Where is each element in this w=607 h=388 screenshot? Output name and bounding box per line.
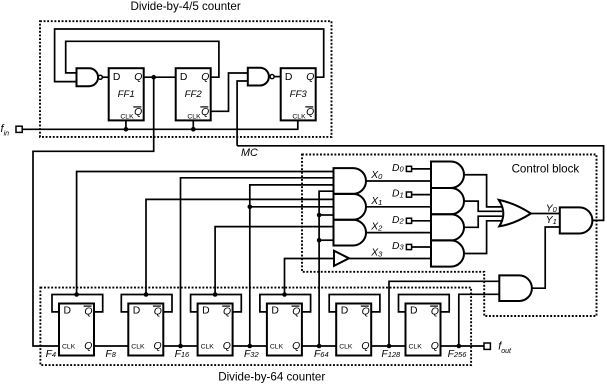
- svg-text:Q: Q: [201, 72, 209, 83]
- wire: FF7 Qbar-to-D feedback loop: [260, 295, 311, 312]
- svg-text:D2: D2: [392, 215, 404, 226]
- net Y0: OR output to U12: [531, 213, 560, 215]
- net X1: U4 output to U8: [366, 206, 431, 208]
- wire: NAND1 output to FF1 D: [102, 76, 108, 78]
- wire: U7 output to OR input: [464, 175, 503, 207]
- wire: F128 tap to U13 input: [389, 281, 499, 346]
- wire: f_in clock line to FF1/FF2/FF3 CLK: [22, 120, 298, 129]
- svg-text:CLK: CLK: [339, 343, 353, 350]
- svg-text:D: D: [133, 306, 141, 317]
- flip-flop FF7: [267, 304, 302, 356]
- dashed box: control block: [302, 155, 597, 317]
- junction: F16 tap: [178, 344, 183, 349]
- svg-text:Divide-by-4/5 counter: Divide-by-4/5 counter: [130, 0, 240, 13]
- wire: FF7 Qbar tap to buffer input: [285, 259, 335, 295]
- svg-text:Q: Q: [431, 341, 439, 352]
- svg-text:X1: X1: [370, 196, 382, 207]
- svg-text:Q: Q: [201, 107, 209, 118]
- terminal f_out: [484, 343, 490, 349]
- wire: FF4 Qbar-to-D feedback loop: [52, 295, 103, 312]
- wire: F16 tap to U3 input: [181, 178, 334, 346]
- junction: F64 branch upper: [317, 213, 322, 218]
- junction: FF7 loop tap: [282, 292, 287, 297]
- wire: FF6 Qbar tap to U5 input: [215, 227, 333, 295]
- wire: FF5 Qbar-to-D feedback loop: [121, 295, 172, 312]
- svg-text:Q: Q: [431, 307, 439, 318]
- svg-text:D: D: [410, 306, 418, 317]
- wire: D1 to and gate: [412, 194, 431, 196]
- junction: F64 branch lower: [317, 238, 322, 243]
- svg-text:Q: Q: [306, 107, 314, 118]
- wire: FF4 Qbar tap to U3 input: [77, 172, 334, 295]
- wire: F64 tap to U3 input: [319, 191, 333, 346]
- net F16: FF5 Q to FF6 CLK: [163, 345, 197, 347]
- svg-text:Q: Q: [306, 72, 314, 83]
- junction: FF1 CLK: [124, 127, 129, 132]
- svg-text:D1: D1: [392, 189, 404, 200]
- svg-text:MC: MC: [241, 147, 258, 159]
- svg-text:F8: F8: [105, 349, 116, 360]
- terminal D0: [406, 166, 411, 171]
- flip-flop FF4: [59, 304, 94, 356]
- svg-text:F256: F256: [448, 349, 468, 360]
- dashed box: divide-by-64 counter: [40, 288, 471, 366]
- svg-text:F32: F32: [244, 349, 259, 360]
- svg-text:CLK: CLK: [409, 343, 423, 350]
- nand gate U2: [248, 68, 274, 86]
- wire: outer feedback FF3 Q to NAND1 input: [55, 29, 324, 82]
- wire: FF1 CLK stub: [125, 120, 127, 129]
- and gate U10 (D3*X3): [431, 240, 464, 266]
- buffer U6 (X3): [334, 251, 349, 266]
- svg-text:D: D: [180, 72, 188, 83]
- wire: FF6 Qbar-to-D feedback loop: [191, 295, 242, 312]
- wire: FF8 Qbar-to-D feedback loop: [329, 295, 380, 312]
- net X3: buffer output to U10: [349, 258, 431, 260]
- and gate U5 (X2): [334, 220, 367, 246]
- and gate U8 (D1*X1): [431, 188, 464, 214]
- dashed box: divide-by-4/5 counter: [40, 21, 332, 137]
- and gate U12 (Y0*Y1 drives MC): [560, 207, 593, 233]
- junction: FF5 loop tap: [144, 292, 149, 297]
- nand gate U1: [77, 68, 103, 86]
- svg-text:X2: X2: [370, 222, 383, 233]
- svg-text:Y0: Y0: [546, 204, 558, 215]
- svg-text:CLK: CLK: [120, 114, 134, 121]
- wire: F32 branch to U4 input: [250, 206, 334, 208]
- svg-text:Q: Q: [223, 307, 231, 318]
- svg-text:Q: Q: [223, 341, 231, 352]
- junction: FF4 loop tap: [74, 292, 79, 297]
- net MC: vertical from NAND2 input down: [237, 81, 248, 146]
- svg-text:Control block: Control block: [512, 162, 580, 175]
- flip-flop FF8: [336, 304, 371, 356]
- wire: inner feedback FF2 Q to NAND1 input: [66, 41, 219, 77]
- svg-text:CLK: CLK: [62, 343, 76, 350]
- wire: U10 output to OR input: [464, 221, 503, 254]
- svg-text:X3: X3: [370, 247, 383, 258]
- svg-text:F64: F64: [314, 349, 329, 360]
- junction: FF2 CLK: [191, 127, 196, 132]
- svg-text:CLK: CLK: [292, 114, 306, 121]
- svg-text:Q: Q: [84, 307, 92, 318]
- net Y1: U13 output up to U12: [532, 227, 560, 288]
- svg-text:CLK: CLK: [201, 343, 215, 350]
- flip-flop FF5: [128, 304, 163, 356]
- and gate U13 (F128*F256): [499, 275, 532, 301]
- svg-text:X0: X0: [370, 170, 383, 181]
- junction: F32 branch: [248, 205, 253, 210]
- svg-text:F4: F4: [46, 349, 56, 360]
- or gate U11: [499, 200, 531, 226]
- wire: NAND2 output to FF3 D: [274, 76, 281, 78]
- svg-text:D: D: [341, 306, 349, 317]
- and gate U9 (D2*X2): [431, 214, 464, 240]
- svg-text:FF2: FF2: [185, 89, 203, 100]
- svg-text:D0: D0: [392, 163, 404, 174]
- svg-text:CLK: CLK: [187, 114, 201, 121]
- net X0: U3 output to U7: [366, 180, 431, 182]
- svg-text:FF3: FF3: [290, 89, 308, 100]
- svg-text:Q: Q: [154, 307, 162, 318]
- wire: FF9 Qbar-to-D feedback loop: [399, 295, 450, 312]
- svg-text:CLK: CLK: [270, 343, 284, 350]
- net F64: FF7 Q to FF8 CLK: [302, 345, 336, 347]
- net F128: FF8 Q to FF9 CLK: [371, 345, 405, 347]
- flip-flop FF2: [176, 68, 211, 120]
- wire: D2 to and gate: [412, 220, 431, 222]
- svg-text:D: D: [64, 306, 72, 317]
- and gate U7 (D0*X0): [431, 162, 464, 189]
- svg-text:D: D: [113, 72, 121, 83]
- svg-text:D3: D3: [392, 241, 404, 252]
- svg-text:Q: Q: [292, 307, 300, 318]
- net X2: U5 output to U9: [366, 232, 431, 234]
- svg-text:Q: Q: [154, 341, 162, 352]
- wire: FF5 Qbar tap to U4 input: [146, 199, 334, 294]
- net MC: feedback from control AND output: [237, 146, 603, 221]
- wire: F256 tap to U13 input: [459, 294, 500, 346]
- svg-text:F16: F16: [175, 349, 190, 360]
- wire: FF2 Qbar to NAND2 input: [211, 73, 248, 111]
- wire: FF1 Q down to divide-by-64 clock input: [33, 77, 154, 346]
- terminal D1: [406, 192, 411, 197]
- terminal D2: [406, 218, 411, 223]
- wire: F64 branch to U4 input: [319, 214, 333, 216]
- junction: FF6 loop tap: [213, 292, 218, 297]
- net F256: FF9 Q to f_out: [441, 345, 485, 347]
- net F8: FF4 Q to FF5 CLK: [94, 345, 128, 347]
- wire: F32 tap to U3 input: [250, 185, 334, 346]
- svg-text:D: D: [285, 72, 293, 83]
- and gate U3 (X0): [334, 168, 366, 194]
- svg-text:Q: Q: [84, 341, 92, 352]
- flip-flop FF9: [406, 304, 441, 356]
- and gate U4 (X1): [334, 194, 367, 220]
- junction: F64 tap: [317, 344, 322, 349]
- flip-flop FF3: [281, 68, 316, 120]
- junction: FF1 Q tap: [151, 75, 156, 80]
- svg-text:CLK: CLK: [131, 343, 145, 350]
- svg-text:Q: Q: [362, 307, 370, 318]
- svg-text:F128: F128: [381, 349, 401, 360]
- junction: F32 tap: [248, 344, 253, 349]
- wire: U9 output to OR input: [464, 216, 502, 227]
- wire: FF2 CLK stub: [192, 120, 194, 129]
- svg-text:D: D: [271, 306, 279, 317]
- flip-flop FF1: [109, 68, 144, 120]
- svg-text:Y1: Y1: [546, 215, 557, 226]
- terminal D3: [406, 244, 411, 249]
- flip-flop FF6: [198, 304, 233, 356]
- wire: U8 output to OR input: [464, 201, 502, 211]
- terminal f_in: [16, 126, 22, 132]
- svg-text:FF1: FF1: [118, 89, 135, 100]
- svg-text:Divide-by-64 counter: Divide-by-64 counter: [218, 370, 325, 383]
- svg-text:Q: Q: [134, 72, 142, 83]
- net F32: FF6 Q to FF7 CLK: [233, 345, 267, 347]
- svg-text:Q: Q: [292, 341, 300, 352]
- junction: F256 tap: [457, 344, 462, 349]
- junction: F128 tap: [387, 344, 392, 349]
- wire: D3 to and gate: [412, 246, 431, 248]
- svg-text:D: D: [202, 306, 210, 317]
- svg-text:Q: Q: [134, 107, 142, 118]
- wire: FF1 Q to FF2 D: [144, 76, 176, 78]
- svg-text:Q: Q: [361, 341, 369, 352]
- wire: F64 branch to U5 input: [319, 239, 333, 241]
- wire: D0 to and gate: [412, 168, 431, 170]
